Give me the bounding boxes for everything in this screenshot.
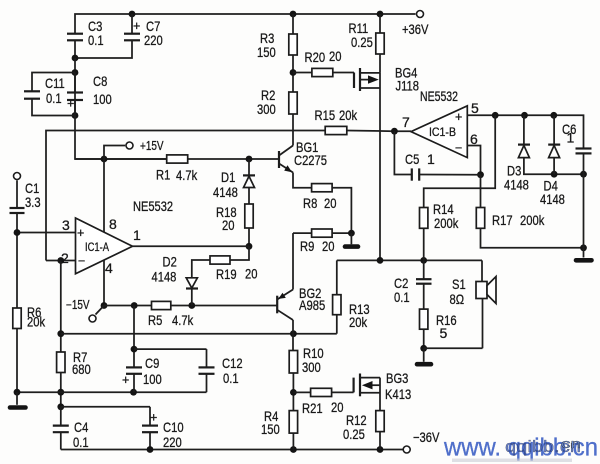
svg-text:C10: C10	[163, 419, 184, 435]
svg-text:C9: C9	[145, 355, 159, 371]
svg-text:−: −	[455, 141, 462, 155]
svg-text:+: +	[67, 97, 74, 111]
svg-text:5: 5	[440, 325, 448, 341]
svg-text:NE5532: NE5532	[420, 88, 458, 104]
svg-text:20k: 20k	[349, 314, 368, 330]
svg-text:20: 20	[245, 266, 258, 282]
svg-text:0.1: 0.1	[223, 370, 239, 386]
svg-text:4148: 4148	[504, 177, 529, 193]
svg-text:+: +	[455, 110, 462, 124]
svg-text:R19: R19	[216, 266, 237, 282]
svg-text:+: +	[122, 373, 129, 387]
svg-text:0.25: 0.25	[343, 426, 365, 442]
svg-text:C4: C4	[74, 419, 88, 435]
svg-text:C11: C11	[45, 75, 65, 91]
svg-text:−15V: −15V	[66, 298, 90, 312]
svg-text:3.3: 3.3	[25, 194, 41, 210]
svg-text:4.7k: 4.7k	[172, 312, 194, 328]
svg-text:J118: J118	[396, 78, 420, 94]
svg-text:0.1: 0.1	[73, 434, 89, 450]
svg-text:NE5532: NE5532	[133, 198, 173, 214]
svg-text:R5: R5	[148, 312, 162, 328]
svg-text:4: 4	[105, 260, 113, 276]
svg-text:C8: C8	[93, 73, 107, 89]
svg-text:R15: R15	[315, 107, 336, 123]
svg-text:K413: K413	[385, 386, 411, 402]
svg-text:R1: R1	[156, 167, 170, 183]
svg-text:IC1-A: IC1-A	[85, 240, 109, 254]
svg-text:150: 150	[257, 44, 276, 60]
svg-text:IC1-B: IC1-B	[429, 125, 456, 139]
svg-text:220: 220	[163, 434, 182, 450]
svg-text:200k: 200k	[434, 215, 459, 231]
svg-text:100: 100	[93, 91, 112, 107]
svg-text:100: 100	[143, 371, 162, 387]
svg-text:300: 300	[302, 359, 321, 375]
svg-text:+36V: +36V	[402, 21, 429, 37]
svg-text:C5: C5	[405, 151, 419, 167]
svg-text:8Ω: 8Ω	[450, 291, 465, 307]
svg-text:C2275: C2275	[294, 152, 327, 168]
svg-text:S1: S1	[452, 276, 466, 292]
svg-text:R9: R9	[300, 238, 314, 254]
svg-text:150: 150	[261, 421, 280, 437]
svg-text:4.7k: 4.7k	[176, 167, 198, 183]
svg-text:20k: 20k	[27, 314, 46, 330]
svg-text:+: +	[77, 226, 84, 240]
svg-text:0.25: 0.25	[351, 34, 373, 50]
svg-text:C12: C12	[222, 355, 243, 371]
svg-text:200k: 200k	[520, 212, 545, 228]
svg-text:220: 220	[144, 32, 163, 48]
svg-text:8: 8	[109, 216, 117, 232]
svg-text:cn: cn	[561, 436, 581, 451]
svg-text:R20: R20	[305, 49, 326, 65]
svg-text:1: 1	[567, 130, 575, 146]
svg-text:0.1: 0.1	[394, 289, 410, 305]
svg-text:BG3: BG3	[386, 370, 409, 386]
svg-text:1: 1	[133, 227, 141, 243]
svg-text:A985: A985	[299, 297, 325, 313]
svg-text:+: +	[133, 19, 140, 33]
svg-text:20: 20	[222, 217, 235, 233]
svg-text:−36V: −36V	[413, 429, 440, 445]
svg-text:R21: R21	[302, 400, 323, 416]
svg-text:6: 6	[470, 131, 478, 147]
svg-text:D1: D1	[221, 169, 235, 185]
svg-text:680: 680	[72, 361, 91, 377]
svg-text:20: 20	[324, 195, 337, 211]
svg-text:4148: 4148	[540, 191, 565, 207]
svg-text:4148: 4148	[213, 184, 238, 200]
svg-text:3: 3	[62, 217, 70, 233]
svg-text:5: 5	[471, 100, 479, 116]
svg-text:R17: R17	[492, 212, 513, 228]
svg-text:−: −	[78, 254, 85, 268]
svg-text:7: 7	[402, 114, 410, 130]
svg-text:20k: 20k	[339, 107, 358, 123]
svg-text:D2: D2	[163, 254, 177, 270]
svg-text:1: 1	[427, 151, 435, 167]
svg-text:+: +	[150, 411, 157, 425]
svg-text:20: 20	[322, 238, 335, 254]
svg-text:0.1: 0.1	[88, 32, 104, 48]
svg-text:20: 20	[329, 48, 342, 64]
svg-text:0.1: 0.1	[46, 90, 62, 106]
svg-text:4148: 4148	[152, 269, 177, 285]
svg-text:300: 300	[257, 101, 276, 117]
svg-text:+15V: +15V	[140, 139, 164, 153]
svg-text:R8: R8	[303, 195, 317, 211]
svg-text:20: 20	[331, 399, 344, 415]
